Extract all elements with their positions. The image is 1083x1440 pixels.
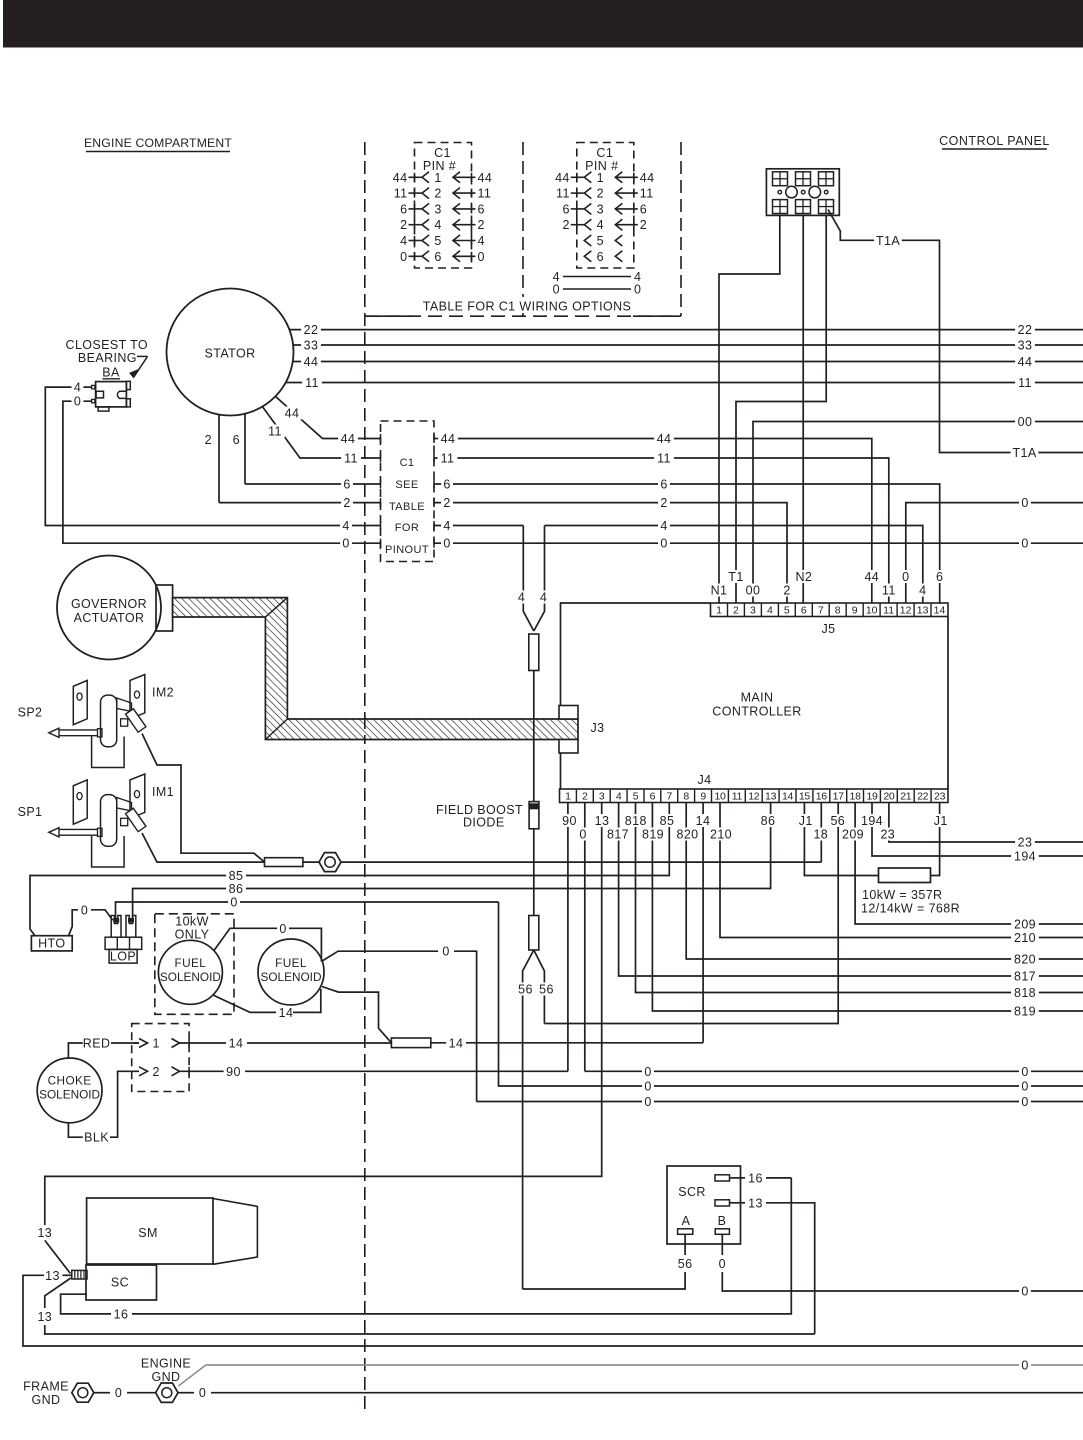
table C1 #1 row pin 3 <box>400 202 485 216</box>
svg-text:23: 23 <box>1018 836 1033 850</box>
svg-text:CLOSEST TO: CLOSEST TO <box>66 338 149 352</box>
wire 44 C1 box to J5 pin 10 <box>434 432 872 603</box>
wire 210 J4 pin 10 to right edge <box>720 803 1083 946</box>
svg-text:2: 2 <box>443 496 450 510</box>
svg-text:85: 85 <box>660 814 675 828</box>
label TABLE FOR C1 WIRING OPTIONS <box>416 297 638 314</box>
svg-text:44: 44 <box>285 407 300 421</box>
wire 2 stator-tap into C1 box left <box>219 496 381 510</box>
table C1 #1 row pin 2 <box>394 187 492 201</box>
svg-text:818: 818 <box>1014 986 1036 1000</box>
connector J3 <box>559 706 605 754</box>
svg-text:33: 33 <box>1018 339 1033 353</box>
svg-text:11: 11 <box>882 584 896 598</box>
svg-text:85: 85 <box>229 869 244 883</box>
wire 0 J5 pin 12 to right edge <box>906 496 1083 603</box>
svg-text:820: 820 <box>1014 953 1036 967</box>
svg-text:6: 6 <box>443 478 450 492</box>
SCR terminal B <box>715 1214 1083 1299</box>
wire 209 J4 pin 18 to right edge <box>855 803 1083 932</box>
svg-text:6: 6 <box>597 250 604 264</box>
wire 85 HTO to J4 pin 7 <box>30 803 669 936</box>
wire 4 from BA to C1 connector <box>45 381 380 533</box>
fuel solenoid 2 <box>258 939 324 1005</box>
svg-text:819: 819 <box>1014 1005 1036 1019</box>
hatched governor cable to J3 <box>173 598 578 740</box>
svg-text:10: 10 <box>714 791 726 803</box>
svg-text:4: 4 <box>518 591 525 605</box>
wire 0 solenoid drop to right edge (third) <box>477 1095 1083 1109</box>
ignition module IM2 <box>18 675 174 768</box>
svg-text:IM2: IM2 <box>152 686 174 700</box>
svg-text:3: 3 <box>597 202 604 216</box>
connector J4 header <box>560 773 949 803</box>
wire T1 from terminal block to J5 pin 2 <box>736 215 826 603</box>
svg-text:TABLE FOR C1 WIRING OPTION: TABLE FOR C1 WIRING OPTIONS <box>423 300 632 314</box>
svg-text:CHOKE: CHOKE <box>48 1074 92 1088</box>
svg-text:4: 4 <box>74 381 81 395</box>
ground wire grey 0 rail <box>178 1359 1083 1387</box>
svg-text:2: 2 <box>478 218 485 232</box>
svg-text:7: 7 <box>667 791 673 803</box>
svg-text:14: 14 <box>449 1036 464 1050</box>
svg-text:817: 817 <box>1014 970 1036 984</box>
svg-text:SP1: SP1 <box>18 805 43 819</box>
svg-text:4: 4 <box>616 791 622 803</box>
fuel solenoid 1 (10kW) <box>158 940 222 1004</box>
svg-text:6: 6 <box>650 791 656 803</box>
dashed separator segment across governor cable <box>364 716 366 742</box>
svg-text:11: 11 <box>305 376 319 390</box>
svg-text:14: 14 <box>934 605 946 617</box>
wire 33 stator to right edge <box>293 339 1083 353</box>
engine ground <box>141 1357 191 1403</box>
inline fuse on field boost lead <box>529 634 539 802</box>
svg-text:RED: RED <box>83 1037 111 1051</box>
svg-text:LOP: LOP <box>110 950 136 964</box>
wire 818 J4 pin 5 to right edge <box>636 803 1083 1001</box>
svg-text:2: 2 <box>597 187 604 201</box>
inline connector on ignition ground lead <box>265 858 303 867</box>
governor actuator <box>57 556 173 660</box>
svg-text:TABLE: TABLE <box>389 501 425 513</box>
svg-text:23: 23 <box>934 791 946 803</box>
svg-text:0: 0 <box>1021 1065 1028 1079</box>
svg-text:21: 21 <box>900 791 912 803</box>
svg-text:194: 194 <box>1014 850 1036 864</box>
svg-text:8: 8 <box>683 791 689 803</box>
svg-text:0: 0 <box>478 250 485 264</box>
svg-text:C1: C1 <box>434 146 451 160</box>
choke connector pin 1 <box>139 1037 196 1051</box>
wire 0 engine ground to right edge <box>179 1386 1083 1400</box>
table C1 #2 row pin 4 <box>562 218 647 232</box>
svg-text:4: 4 <box>597 218 604 232</box>
connector J5 header <box>711 603 949 636</box>
svg-text:SP2: SP2 <box>18 706 43 720</box>
svg-text:90: 90 <box>226 1065 241 1079</box>
svg-text:56: 56 <box>539 983 554 997</box>
svg-text:J1: J1 <box>799 814 813 828</box>
table C1 #1 row pin 1 <box>393 171 492 185</box>
svg-text:ACTUATOR: ACTUATOR <box>74 611 145 625</box>
svg-text:00: 00 <box>1018 415 1033 429</box>
wire 0 HTO to LOP <box>69 903 113 935</box>
svg-text:2: 2 <box>640 218 647 232</box>
svg-text:13: 13 <box>765 791 777 803</box>
svg-text:13: 13 <box>45 1269 60 1283</box>
J5 pin labels row upper <box>726 570 946 584</box>
svg-text:ONLY: ONLY <box>175 928 210 942</box>
choke connector dashed box <box>132 1024 189 1092</box>
inline connector on wire 14 <box>391 1038 430 1048</box>
C1 wiring options table boundary left <box>522 142 524 316</box>
wire option jumper 0-0 <box>553 283 642 297</box>
svg-text:MAIN: MAIN <box>741 691 774 705</box>
svg-text:STATOR: STATOR <box>204 347 255 361</box>
wire 11 stator to right edge <box>286 376 1083 390</box>
wire 14 inline connector to J4 pin 9 <box>431 803 703 1051</box>
svg-text:11: 11 <box>732 791 743 803</box>
svg-text:0: 0 <box>443 537 450 551</box>
svg-text:0: 0 <box>1021 1095 1028 1109</box>
wire 86 LOP to J4 pin 13 <box>133 803 771 920</box>
svg-text:0: 0 <box>1021 1285 1028 1299</box>
svg-text:GOVERNOR: GOVERNOR <box>71 597 147 611</box>
table C1 #2 row pin 3 <box>562 202 647 216</box>
wire 0 frame ground to engine ground <box>94 1386 156 1400</box>
svg-text:SOLENOID: SOLENOID <box>261 970 322 984</box>
svg-text:SCR: SCR <box>678 1185 706 1199</box>
title bar <box>3 0 1083 48</box>
svg-text:2: 2 <box>205 433 212 447</box>
connector BA <box>92 366 131 412</box>
svg-text:3: 3 <box>434 202 441 216</box>
svg-text:ENGINE: ENGINE <box>141 1357 191 1371</box>
svg-text:819: 819 <box>642 828 664 842</box>
svg-text:0: 0 <box>644 1095 651 1109</box>
terminal block connector T1 <box>766 169 839 216</box>
svg-text:18: 18 <box>813 828 828 842</box>
wire from IM2 to splice <box>142 734 265 863</box>
svg-text:6: 6 <box>343 478 350 492</box>
C1 wiring options table boundary bottom <box>365 315 681 317</box>
wire 0 from BA to C1 connector <box>63 395 381 551</box>
svg-text:3: 3 <box>599 791 605 803</box>
inline fuse lower on 56 lead <box>529 916 539 951</box>
wire 16 SC to SCR <box>61 1178 792 1322</box>
svg-text:2: 2 <box>660 496 667 510</box>
svg-text:SOLENOID: SOLENOID <box>39 1088 100 1102</box>
svg-text:44: 44 <box>555 171 570 185</box>
wire 13 J4 pin 3 to starter area <box>35 803 602 1274</box>
svg-text:17: 17 <box>833 791 845 803</box>
svg-text:13: 13 <box>37 1226 52 1240</box>
svg-text:13: 13 <box>37 1310 52 1324</box>
wire 4 C1 box to J5 pin 13 <box>434 519 923 603</box>
svg-text:15: 15 <box>799 791 811 803</box>
SCR box <box>667 1166 741 1244</box>
table C1 #2 row pin 1 <box>555 171 654 185</box>
svg-text:FUEL: FUEL <box>275 956 307 970</box>
svg-text:8: 8 <box>835 605 841 617</box>
wire 6 stator-tap into C1 box left <box>245 478 381 492</box>
wire 0 J4 pin 2 to right edge <box>585 803 1083 1079</box>
svg-text:18: 18 <box>850 791 862 803</box>
svg-text:56: 56 <box>678 1257 693 1271</box>
wire 56 split pair <box>516 950 557 1289</box>
svg-text:44: 44 <box>393 171 408 185</box>
main controller box <box>561 603 949 789</box>
table C1 #1 row pin 6 <box>400 250 485 264</box>
SCR terminal A <box>523 1214 695 1289</box>
dashed separator line (engine/panel boundary) <box>364 142 366 1412</box>
stator tap wire 6 <box>233 414 245 484</box>
svg-text:44: 44 <box>341 432 356 446</box>
wire 194 J4 pin 19 to right edge <box>872 803 1083 864</box>
svg-text:11: 11 <box>1018 376 1032 390</box>
svg-text:56: 56 <box>518 983 533 997</box>
wire 23 J4 pin 20 to right edge <box>889 803 1083 850</box>
10kW ONLY dashed box <box>155 914 234 1015</box>
wire N2 from terminal block to J5 pin 6 <box>802 215 804 603</box>
wire 13 mid tap to bottom rail <box>23 1269 1083 1346</box>
SCR terminal 13 <box>715 1196 815 1334</box>
svg-text:0: 0 <box>634 283 641 297</box>
svg-text:0: 0 <box>644 1065 651 1079</box>
svg-text:SOLENOID: SOLENOID <box>160 970 221 984</box>
svg-text:4: 4 <box>342 519 349 533</box>
svg-text:11: 11 <box>657 452 671 466</box>
svg-text:6: 6 <box>640 202 647 216</box>
wire 820 J4 pin 8 to right edge <box>686 803 1083 967</box>
svg-text:16: 16 <box>816 791 828 803</box>
svg-text:194: 194 <box>861 814 883 828</box>
svg-text:0: 0 <box>442 945 449 959</box>
svg-text:11: 11 <box>556 187 570 201</box>
wire 6 C1 box to J5 pin 14 <box>434 478 940 604</box>
svg-text:33: 33 <box>304 339 319 353</box>
svg-text:44: 44 <box>1018 355 1033 369</box>
svg-text:6: 6 <box>478 202 485 216</box>
svg-text:4: 4 <box>478 234 485 248</box>
svg-text:HTO: HTO <box>38 937 65 951</box>
svg-text:11: 11 <box>344 452 358 466</box>
svg-text:ENGINE COMPARTMENT: ENGINE COMPARTMENT <box>84 136 232 150</box>
svg-text:1: 1 <box>597 171 604 185</box>
table C1 #1 row pin 5 <box>400 234 485 248</box>
svg-text:J1: J1 <box>934 814 948 828</box>
svg-text:0: 0 <box>644 1080 651 1094</box>
svg-text:0: 0 <box>719 1257 726 1271</box>
svg-text:209: 209 <box>842 828 864 842</box>
svg-text:0: 0 <box>342 537 349 551</box>
svg-text:4: 4 <box>434 218 441 232</box>
wire 0 fuel solenoid 2 to drop <box>321 945 476 1102</box>
stator tap wire 2 <box>205 415 219 503</box>
svg-text:J4: J4 <box>697 773 711 787</box>
svg-text:2: 2 <box>733 605 739 617</box>
svg-text:1: 1 <box>434 171 441 185</box>
svg-text:0: 0 <box>1021 1359 1028 1373</box>
svg-text:SM: SM <box>138 1226 158 1240</box>
wire 13 lower tap to SCR <box>35 1278 815 1334</box>
svg-text:FUEL: FUEL <box>175 956 207 970</box>
svg-text:12/14kW = 768R: 12/14kW = 768R <box>861 902 960 916</box>
svg-text:0: 0 <box>902 570 909 584</box>
J4 pin labels row A <box>560 814 951 828</box>
svg-text:4: 4 <box>443 519 450 533</box>
svg-text:11: 11 <box>394 187 408 201</box>
svg-text:B: B <box>718 1214 727 1228</box>
svg-text:7: 7 <box>818 605 824 617</box>
svg-text:5: 5 <box>597 234 604 248</box>
section label ENGINE COMPARTMENT <box>84 136 232 152</box>
wire 18 hex stud to J4 pin 16 <box>341 803 821 863</box>
svg-text:10kW = 357R: 10kW = 357R <box>862 888 942 902</box>
svg-text:16: 16 <box>114 1307 129 1321</box>
svg-text:11: 11 <box>883 605 894 617</box>
svg-text:1: 1 <box>153 1037 160 1051</box>
svg-text:820: 820 <box>676 828 698 842</box>
wire 0 LOP to vertical drop <box>116 896 499 920</box>
svg-text:T1A: T1A <box>1012 446 1036 460</box>
svg-text:T1: T1 <box>728 570 743 584</box>
svg-text:1: 1 <box>565 791 571 803</box>
wire 44 label at C1 box left <box>338 432 361 466</box>
svg-text:13: 13 <box>917 605 929 617</box>
wire 14 fuel solenoid 2 to inline connector <box>322 987 391 1043</box>
svg-text:GND: GND <box>32 1393 61 1407</box>
wire 11 C1 box to J5 pin 11 <box>434 452 889 604</box>
svg-text:86: 86 <box>761 814 776 828</box>
svg-text:0: 0 <box>553 283 560 297</box>
wire N1 from terminal block to J5 pin 1 <box>719 215 780 603</box>
svg-text:6: 6 <box>233 433 240 447</box>
wire 14 fuel solenoid 1 to fuel solenoid 2 <box>213 989 321 1020</box>
svg-text:C1: C1 <box>400 457 415 469</box>
svg-text:90: 90 <box>562 814 577 828</box>
svg-text:2: 2 <box>783 584 790 598</box>
svg-text:4: 4 <box>919 584 926 598</box>
J5 pin labels row lower <box>709 584 929 598</box>
svg-text:16: 16 <box>748 1171 763 1185</box>
svg-text:6: 6 <box>801 605 807 617</box>
svg-text:2: 2 <box>434 187 441 201</box>
svg-text:0: 0 <box>81 903 88 917</box>
starter cable terminal (hatched) <box>72 1270 87 1279</box>
connector table C1 #2 box <box>577 143 634 269</box>
svg-text:J5: J5 <box>821 622 835 636</box>
svg-text:210: 210 <box>710 828 732 842</box>
svg-text:44: 44 <box>304 355 319 369</box>
svg-text:6: 6 <box>936 570 943 584</box>
starter motor SM <box>87 1198 258 1264</box>
svg-text:N2: N2 <box>796 570 813 584</box>
svg-text:4: 4 <box>767 605 773 617</box>
wire 90 choke connector to J4 pin 1 <box>196 803 568 1079</box>
connector table C1 #1 box <box>415 143 472 269</box>
svg-text:10: 10 <box>866 605 878 617</box>
svg-text:0: 0 <box>199 1386 206 1400</box>
svg-text:N1: N1 <box>711 584 728 598</box>
wire 0 mid drop to right edge (second) <box>499 902 1083 1094</box>
table C1 #2 row pin 2 <box>556 187 654 201</box>
svg-text:44: 44 <box>864 570 879 584</box>
wire T1A from terminal block to right edge <box>828 210 1083 461</box>
wire 2 C1 box to J5 pin 5 <box>434 496 787 603</box>
svg-text:DIODE: DIODE <box>463 816 505 830</box>
svg-text:2: 2 <box>562 218 569 232</box>
wire RED choke to connector pin 1 <box>68 1037 139 1059</box>
wire 817 J4 pin 4 to right edge <box>619 803 1083 984</box>
svg-text:0: 0 <box>230 896 237 910</box>
svg-text:0: 0 <box>115 1386 122 1400</box>
svg-text:BA: BA <box>102 366 120 380</box>
svg-text:817: 817 <box>607 828 629 842</box>
svg-text:0: 0 <box>400 250 407 264</box>
wire option jumper 4-4 <box>553 270 642 284</box>
label CLOSEST TO BEARING with arrow <box>66 338 149 378</box>
svg-text:0: 0 <box>1021 496 1028 510</box>
svg-text:BEARING: BEARING <box>78 351 137 365</box>
C1 wiring options table boundary right <box>680 142 682 316</box>
svg-text:14: 14 <box>782 791 794 803</box>
svg-text:1: 1 <box>716 605 722 617</box>
svg-text:5: 5 <box>434 234 441 248</box>
svg-text:11: 11 <box>478 187 492 201</box>
svg-text:11: 11 <box>268 425 282 439</box>
wire 00 J5 pin 3 to right edge <box>753 415 1083 603</box>
svg-text:4: 4 <box>660 519 667 533</box>
svg-text:14: 14 <box>696 814 711 828</box>
svg-text:0: 0 <box>279 922 286 936</box>
wire 14 choke connector to inline connector <box>196 1037 391 1051</box>
svg-text:14: 14 <box>229 1037 244 1051</box>
field boost diode <box>436 802 539 830</box>
table C1 #2 row pin 6 <box>584 250 622 264</box>
svg-text:11: 11 <box>441 452 455 466</box>
svg-text:CONTROLLER: CONTROLLER <box>712 705 801 719</box>
svg-text:IM1: IM1 <box>152 785 174 799</box>
svg-text:22: 22 <box>1018 323 1033 337</box>
svg-text:86: 86 <box>229 882 244 896</box>
label resistor values <box>861 888 960 916</box>
wire from IM1 to splice <box>142 833 265 862</box>
ignition module IM1 <box>18 774 174 867</box>
svg-text:6: 6 <box>562 202 569 216</box>
svg-text:FOR: FOR <box>395 522 419 534</box>
ground stud hex near IM1 <box>303 853 341 872</box>
J4 pin labels row B <box>577 828 898 842</box>
wire 56 J4 pin 17 horizontal <box>544 803 838 1024</box>
svg-text:209: 209 <box>1014 918 1036 932</box>
svg-text:4: 4 <box>540 591 547 605</box>
svg-text:C1: C1 <box>596 146 613 160</box>
svg-text:6: 6 <box>434 250 441 264</box>
resistor between J4 pin 15 and pin 23 <box>804 803 939 883</box>
table C1 #1 row pin 4 <box>400 218 485 232</box>
svg-text:2: 2 <box>400 218 407 232</box>
svg-text:13: 13 <box>748 1196 763 1210</box>
svg-text:J3: J3 <box>591 721 605 735</box>
stator tap wire 11 diagonal <box>262 406 381 458</box>
svg-text:FRAME: FRAME <box>23 1380 69 1394</box>
svg-text:22: 22 <box>917 791 929 803</box>
svg-text:9: 9 <box>700 791 706 803</box>
section label CONTROL PANEL <box>939 134 1050 149</box>
switch HTO <box>31 936 72 951</box>
